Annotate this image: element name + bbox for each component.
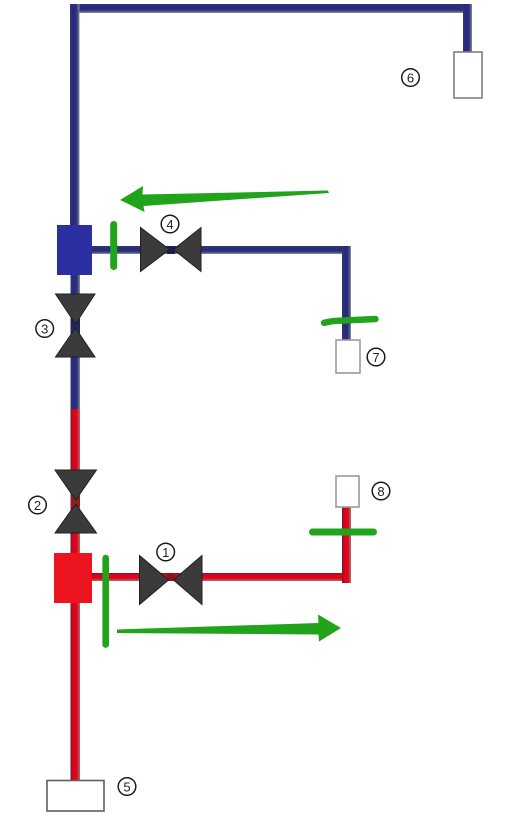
wire: blue left vertical pipe from top to tee block [70, 4, 80, 226]
valve 1 [140, 556, 203, 605]
green tick on blue pipe above device 7 [324, 319, 376, 323]
wire: red vertical pipe from red tee block down to device 5 [71, 602, 81, 781]
wire: blue vertical pipe below tee block through valve 3 [71, 274, 81, 412]
device 5 tank [47, 781, 104, 812]
device 7 tank [336, 340, 360, 373]
node label 2 [29, 496, 47, 514]
svg-text:2: 2 [34, 498, 41, 513]
svg-text:4: 4 [166, 217, 173, 232]
green arrow pointing left (top) [120, 186, 329, 212]
valve 3 [56, 294, 96, 357]
green arrow pointing right (bottom) [117, 615, 341, 642]
valve 4 pinch shading [167, 246, 175, 254]
svg-text:5: 5 [123, 779, 130, 794]
green tick on red pipe above corner to device 8 [313, 529, 374, 536]
svg-text:8: 8 [377, 484, 384, 499]
wire: red vertical pipe through valve 2 down to red tee block [71, 409, 81, 555]
valve 3 pinch shading [71, 319, 81, 333]
green tick on red branch pipe [102, 558, 109, 645]
svg-text:1: 1 [162, 545, 169, 560]
svg-text:6: 6 [407, 70, 414, 85]
wire: red horizontal pipe from red tee block through valve 1 [92, 573, 351, 581]
svg-text:3: 3 [41, 321, 48, 336]
wire: red right vertical pipe from device 8 down to corner [342, 507, 351, 583]
wire: blue right vertical drop to device 6 [463, 4, 472, 54]
green tick on blue branch pipe [110, 225, 117, 267]
red tee block [54, 553, 92, 603]
node label 1 [157, 543, 175, 561]
wire: blue horizontal pipe from tee block through valve 4 [92, 246, 351, 254]
valve 1 pinch shading [167, 573, 175, 581]
node label 3 [36, 320, 54, 338]
node label 7 [367, 348, 385, 366]
wire: blue top horizontal pipe [70, 4, 472, 13]
node label 8 [372, 482, 390, 500]
valve 4 [141, 228, 202, 272]
blue tee block [57, 225, 92, 275]
node label 4 [161, 215, 179, 233]
wire: blue right vertical pipe down to device 7 [342, 246, 351, 342]
valve 2 pinch shading [71, 496, 81, 507]
valve 2 [55, 470, 97, 533]
svg-text:7: 7 [372, 350, 379, 365]
device 8 tank [336, 476, 359, 507]
device 6 tank [454, 52, 482, 98]
node label 6 [402, 69, 420, 87]
node label 5 [118, 778, 136, 796]
